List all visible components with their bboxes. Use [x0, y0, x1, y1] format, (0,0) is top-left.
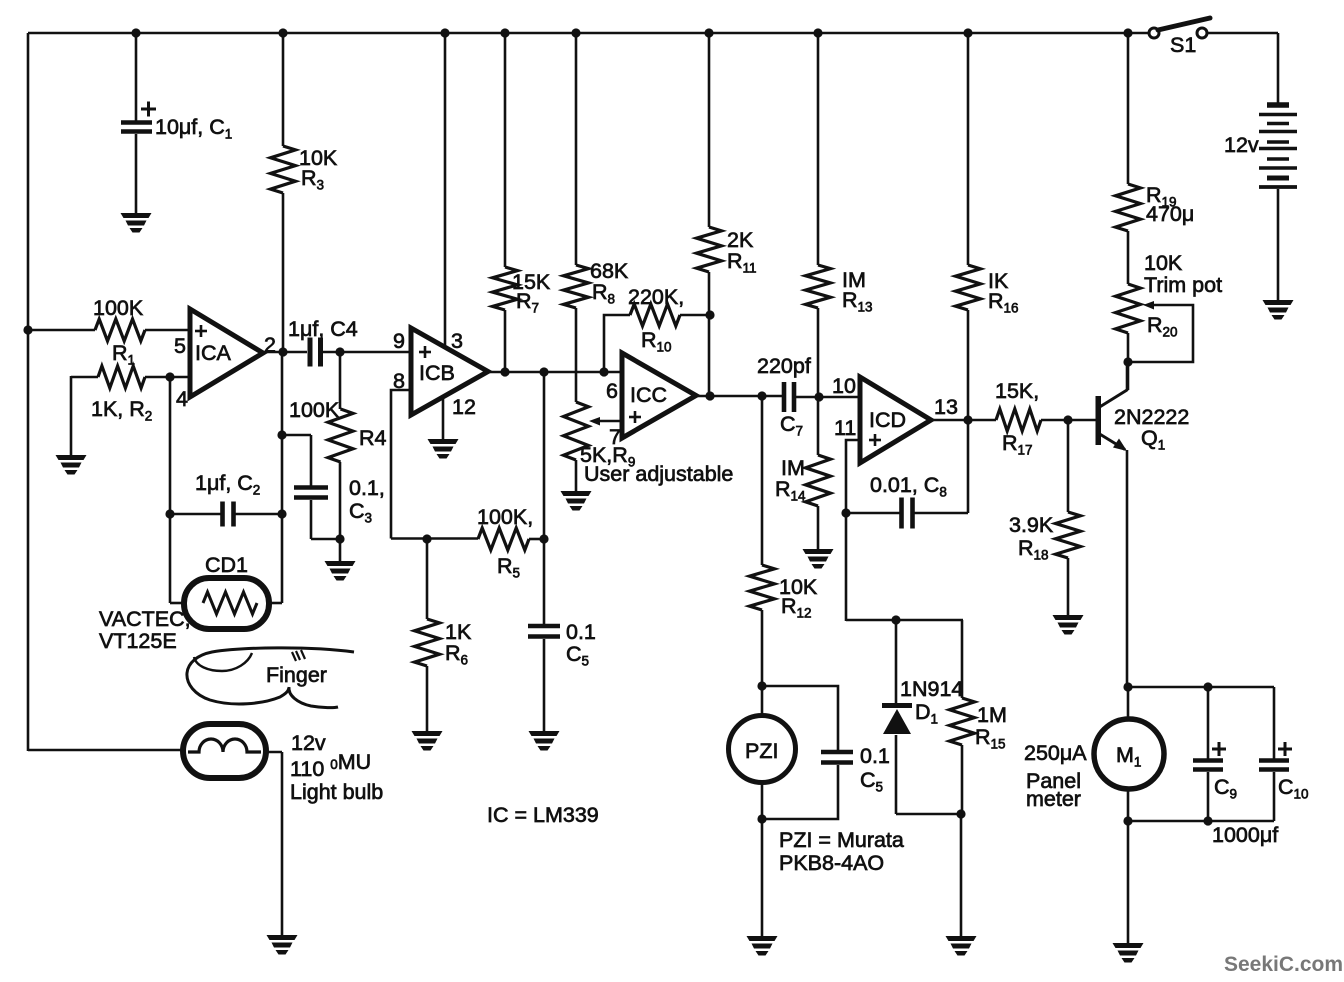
light bulb filament — [188, 739, 261, 752]
wire PZI bottom lead — [761, 782, 764, 936]
capacitor C9 — [1193, 758, 1223, 763]
wire R1 left lead — [28, 329, 95, 332]
ground under C1 — [121, 213, 152, 218]
node top rail junction x=818 — [813, 28, 822, 37]
wire C4 to ICB pin9 — [322, 351, 411, 354]
capacitor C5 — [528, 624, 560, 629]
svg-text:10: 10 — [832, 374, 856, 398]
photocell CD1 element — [203, 592, 257, 614]
op-amp ICC — [622, 353, 696, 438]
node left frame R1 junction — [23, 325, 32, 334]
wire ICB output — [488, 371, 622, 374]
resistor R5 — [478, 528, 529, 550]
resistor R17 — [996, 409, 1041, 431]
node top rail junction x=576 — [571, 28, 580, 37]
node C2 right junction — [277, 509, 286, 518]
wire R4 top lead — [339, 352, 342, 409]
transistor Q1 emitter — [1098, 433, 1125, 450]
node ICC out R12 junction — [757, 391, 766, 400]
svg-text:1N914: 1N914 — [900, 677, 963, 701]
wire R20 bottom lead — [1127, 333, 1130, 390]
wire R20 wiper — [1128, 305, 1193, 362]
resistor R13 — [806, 265, 831, 308]
svg-text:R4: R4 — [359, 426, 387, 450]
svg-text:15K,: 15K, — [995, 379, 1039, 403]
ground under R4 C3 — [325, 561, 356, 566]
wire R6 top lead — [426, 539, 429, 619]
op-amp ICB — [411, 328, 488, 415]
wire left frame — [27, 33, 30, 751]
resistor R14 — [806, 455, 831, 506]
switch S1 — [1149, 28, 1159, 38]
wire R16 bottom lead — [967, 310, 970, 513]
resistor R20 — [1116, 284, 1141, 333]
capacitor C7 — [782, 382, 787, 412]
svg-text:VT125E: VT125E — [99, 629, 177, 653]
resistor R16 — [956, 265, 981, 310]
svg-text:PZI: PZI — [745, 739, 778, 763]
svg-text:ICC: ICC — [630, 383, 667, 407]
capacitor C5 piezo — [821, 750, 853, 755]
node R7 bottom junction — [500, 367, 509, 376]
wire C3 branch — [282, 434, 311, 437]
svg-text:PZI = Murata: PZI = Murata — [779, 828, 904, 852]
svg-text:7: 7 — [609, 425, 621, 449]
svg-text:100K,: 100K, — [477, 505, 533, 529]
ground under R6 — [412, 731, 443, 736]
wire M1 cap rail bottom — [1128, 820, 1274, 823]
node top rail junction x=136 — [131, 28, 140, 37]
wire R6 bottom lead — [426, 666, 429, 731]
wire R13 top lead — [817, 33, 820, 265]
node R20 wiper junction — [1123, 357, 1132, 366]
wire ICC output — [696, 395, 782, 398]
wire battery top lead — [1277, 33, 1280, 104]
node C3 branch junction — [277, 430, 286, 439]
node D1 top junction — [891, 615, 900, 624]
wire PZI cap loop bottom — [762, 765, 838, 819]
svg-text:10K: 10K — [1144, 251, 1183, 275]
wire R18 top lead — [1067, 420, 1070, 512]
wire D1 top lead — [895, 620, 898, 704]
photocell CD1 body — [184, 578, 269, 629]
resistor R4 — [328, 409, 353, 462]
node top rail junction x=968 — [963, 28, 972, 37]
svg-text:3: 3 — [451, 329, 463, 353]
ground under R15 — [946, 936, 977, 941]
wire R12 bottom lead — [761, 610, 764, 716]
wire ICA output — [263, 351, 307, 354]
svg-text:12v: 12v — [291, 731, 326, 755]
wire R5 left rail — [391, 537, 478, 540]
wire R3 top lead — [282, 33, 285, 146]
wire R2 right lead — [145, 376, 191, 379]
node R2 pin4 junction — [165, 372, 174, 381]
wire C3 bottom lead — [310, 500, 313, 539]
transistor Q1 base bar — [1096, 396, 1102, 445]
wire C1 bottom lead — [135, 134, 138, 213]
wire D1 R15 top rail — [846, 619, 963, 622]
ground under M1 — [1113, 943, 1144, 948]
wire R14 bottom lead — [817, 506, 820, 549]
svg-text:1M: 1M — [977, 703, 1007, 727]
capacitor C2 — [220, 502, 225, 527]
svg-text:0.01, C8: 0.01, C8 — [870, 473, 947, 500]
svg-text:User adjustable: User adjustable — [584, 462, 733, 486]
svg-text:ICB: ICB — [419, 361, 455, 385]
wire R10 left lead — [604, 315, 630, 372]
svg-text:470μ: 470μ — [1146, 202, 1194, 226]
wire C10 bottom lead — [1273, 772, 1276, 821]
wire ICB pin3 lead — [444, 33, 447, 345]
wire R3 bottom lead — [282, 193, 285, 353]
resistor R1 — [95, 319, 145, 341]
wire C9 bottom lead — [1207, 772, 1210, 821]
svg-text:12: 12 — [452, 395, 476, 419]
wire Q1 collector lead — [1126, 362, 1129, 391]
svg-text:Finger: Finger — [266, 663, 327, 687]
svg-text:250μA: 250μA — [1024, 741, 1087, 765]
resistor R2 — [98, 366, 145, 388]
node top rail junction x=709 — [704, 28, 713, 37]
resistor R9 — [564, 402, 589, 460]
node PZI bottom junction — [757, 814, 766, 823]
wire R10 right lead — [680, 314, 710, 317]
wire R8 top lead — [575, 33, 578, 265]
wire bulb left lead — [28, 749, 184, 752]
node R5 right junction — [539, 534, 548, 543]
wire R9 bottom lead — [575, 460, 578, 491]
ground under R14 — [803, 549, 834, 554]
svg-text:IC = LM339: IC = LM339 — [487, 803, 599, 827]
wire R15 top lead — [961, 620, 964, 698]
wire C8 left lead — [846, 512, 900, 515]
svg-text:CD1: CD1 — [205, 553, 248, 577]
node PZI top junction — [757, 681, 766, 690]
wire C1 top lead — [135, 33, 138, 121]
svg-text:1K, R2: 1K, R2 — [91, 397, 152, 424]
wire R15 bottom lead — [961, 745, 964, 814]
resistor R6 — [415, 619, 440, 666]
node C2 left junction — [165, 509, 174, 518]
node C9 bottom junction — [1203, 816, 1212, 825]
ground under C5 — [529, 731, 560, 736]
wire ICB pin12 lead — [442, 399, 445, 439]
label ICB plus — [419, 351, 431, 354]
wire R11 bottom lead — [708, 272, 711, 397]
resistor R19 — [1116, 184, 1141, 231]
label ICD plus — [869, 439, 881, 442]
wire bulb right lead — [265, 751, 282, 754]
wire top supply rail — [28, 32, 1154, 35]
op-amp ICD — [860, 377, 931, 463]
wire ICD output — [931, 419, 996, 422]
node R10 pin6 junction — [599, 367, 608, 376]
wire R14 top lead — [817, 397, 820, 455]
label ICC plus — [629, 416, 641, 419]
node R5 left junction — [422, 534, 431, 543]
ground under R2 — [56, 455, 87, 460]
node ICC out R11 junction — [705, 391, 714, 400]
svg-text:0.1,: 0.1, — [349, 476, 385, 500]
ground under R18 — [1053, 615, 1084, 620]
ground under R9 — [561, 491, 592, 496]
svg-text:SeekiC.com: SeekiC.com — [1224, 953, 1343, 976]
capacitor C3 — [294, 485, 328, 490]
wire R18 bottom lead — [1067, 558, 1070, 615]
wire R7 bottom lead — [504, 310, 507, 372]
svg-text:1000μf: 1000μf — [1212, 823, 1278, 847]
capacitor C10 — [1259, 758, 1289, 763]
resistor R12 — [750, 565, 775, 610]
svg-text:1μf, C4: 1μf, C4 — [288, 317, 358, 341]
svg-text:100K: 100K — [93, 296, 144, 320]
ground under bulb — [267, 935, 298, 940]
wire C9 top lead — [1207, 687, 1210, 759]
svg-text:13: 13 — [934, 395, 958, 419]
wire C5 bottom lead — [543, 639, 546, 731]
svg-text:meter: meter — [1026, 787, 1081, 811]
battery B1 12v — [1267, 102, 1289, 108]
wire R2 left lead — [71, 376, 98, 379]
svg-text:2: 2 — [264, 333, 276, 357]
node ICB out R5C5 junction — [539, 367, 548, 376]
wire M1 top lead — [1127, 687, 1130, 720]
wire CD1 right lead — [268, 602, 282, 605]
svg-text:11: 11 — [834, 416, 856, 440]
node M1 top junction — [1123, 682, 1132, 691]
resistor R18 — [1056, 512, 1081, 558]
wire ICA output down — [281, 352, 284, 603]
node C8 left junction — [841, 508, 850, 517]
wire R19 top lead — [1127, 33, 1130, 184]
svg-text:0.1: 0.1 — [566, 620, 596, 644]
resistor R8 — [564, 265, 589, 308]
op-amp ICA — [190, 309, 263, 397]
piezo PZI — [729, 716, 796, 783]
wire R11 top lead — [708, 33, 711, 227]
svg-text:10μf, C1: 10μf, C1 — [155, 115, 232, 142]
wire C8 node down — [845, 513, 848, 621]
svg-text:6: 6 — [606, 379, 618, 403]
node C4 output junction — [335, 347, 344, 356]
capacitor C8 — [899, 498, 904, 529]
ground under ICB — [428, 439, 459, 444]
svg-text:S1: S1 — [1170, 33, 1196, 57]
ground under battery — [1263, 300, 1294, 305]
wire ICB pin8 lead — [391, 390, 411, 539]
wire R5 C5 node — [543, 372, 546, 624]
svg-text:100K: 100K — [289, 398, 340, 422]
wire battery bottom lead — [1277, 189, 1280, 300]
light bulb body — [183, 724, 266, 778]
svg-text:12v: 12v — [1224, 133, 1259, 157]
resistor R11 — [697, 227, 722, 272]
wire M1 cap rail top — [1128, 686, 1274, 689]
wire C2 left lead — [170, 513, 221, 516]
wire R7 top lead — [504, 33, 507, 267]
label ICA plus — [195, 330, 207, 333]
svg-text:PKB8-4AO: PKB8-4AO — [779, 851, 884, 875]
wire R15 ground lead — [960, 814, 963, 936]
capacitor C1 — [121, 120, 152, 125]
node top rail junction x=283 — [278, 28, 287, 37]
wire R4 bottom lead — [339, 462, 342, 561]
svg-text:Trim pot: Trim pot — [1144, 273, 1222, 297]
wire R13 bottom lead — [817, 308, 820, 397]
svg-text:220K,: 220K, — [628, 285, 684, 309]
svg-text:ICD: ICD — [869, 408, 906, 432]
wire R19 R20 lead — [1127, 231, 1130, 284]
ground under PZI — [747, 936, 778, 941]
wire R1 right lead — [145, 329, 191, 332]
wire R9 wiper — [598, 420, 622, 423]
resistor R15 — [950, 698, 975, 745]
svg-text:4: 4 — [176, 387, 188, 411]
transistor Q1 collector — [1098, 390, 1127, 408]
resistor R7 — [493, 267, 518, 310]
meter M1 — [1094, 719, 1164, 789]
resistor R10 — [630, 304, 680, 326]
node C9 top junction — [1203, 682, 1212, 691]
node R15 bottom junction — [956, 809, 965, 818]
node top rail junction x=1128 — [1123, 28, 1132, 37]
diode D1 — [882, 703, 912, 708]
node C3 R4 junction — [335, 534, 344, 543]
node top rail junction x=505 — [500, 28, 509, 37]
svg-text:0.1: 0.1 — [860, 744, 890, 768]
wire D1 bottom lead — [895, 735, 898, 814]
wire ICD pin11 lead — [846, 440, 860, 513]
node ICA output junction — [278, 347, 287, 356]
svg-text:1μf, C2: 1μf, C2 — [195, 471, 260, 498]
wire PZI cap loop top — [762, 686, 838, 750]
wire C2 right lead — [234, 513, 282, 516]
node R10 R11 junction — [705, 310, 714, 319]
node R17 R18 junction — [1063, 415, 1072, 424]
wire R5 right lead — [529, 538, 544, 541]
node C7 R13 junction — [814, 392, 823, 401]
capacitor C4 — [308, 338, 313, 367]
svg-text:Light bulb: Light bulb — [290, 780, 383, 804]
svg-text:9: 9 — [393, 329, 405, 353]
svg-text:3.9K: 3.9K — [1009, 513, 1054, 537]
wire C7 right lead — [796, 396, 860, 399]
wire Q1 emitter lead — [1126, 450, 1129, 688]
wire R16 top lead — [967, 33, 970, 265]
wire R8 bottom lead — [575, 308, 578, 402]
wire M1 bottom lead — [1127, 788, 1130, 943]
finger drawing — [187, 648, 354, 704]
svg-text:220pf: 220pf — [757, 354, 811, 378]
node top rail junction x=445 — [440, 28, 449, 37]
wire pin4 node down — [169, 377, 172, 603]
node ICD out R16 junction — [963, 415, 972, 424]
svg-text:VACTEC,: VACTEC, — [99, 607, 191, 631]
wire R12 top lead — [761, 396, 764, 565]
wire C10 top lead — [1273, 687, 1276, 759]
svg-text:ICA: ICA — [195, 341, 232, 365]
wire C8 right lead — [914, 512, 968, 515]
resistor R3 — [271, 146, 296, 193]
wire R17 right lead — [1041, 419, 1096, 422]
node M1 bottom junction — [1123, 816, 1132, 825]
svg-text:5: 5 — [174, 334, 186, 358]
